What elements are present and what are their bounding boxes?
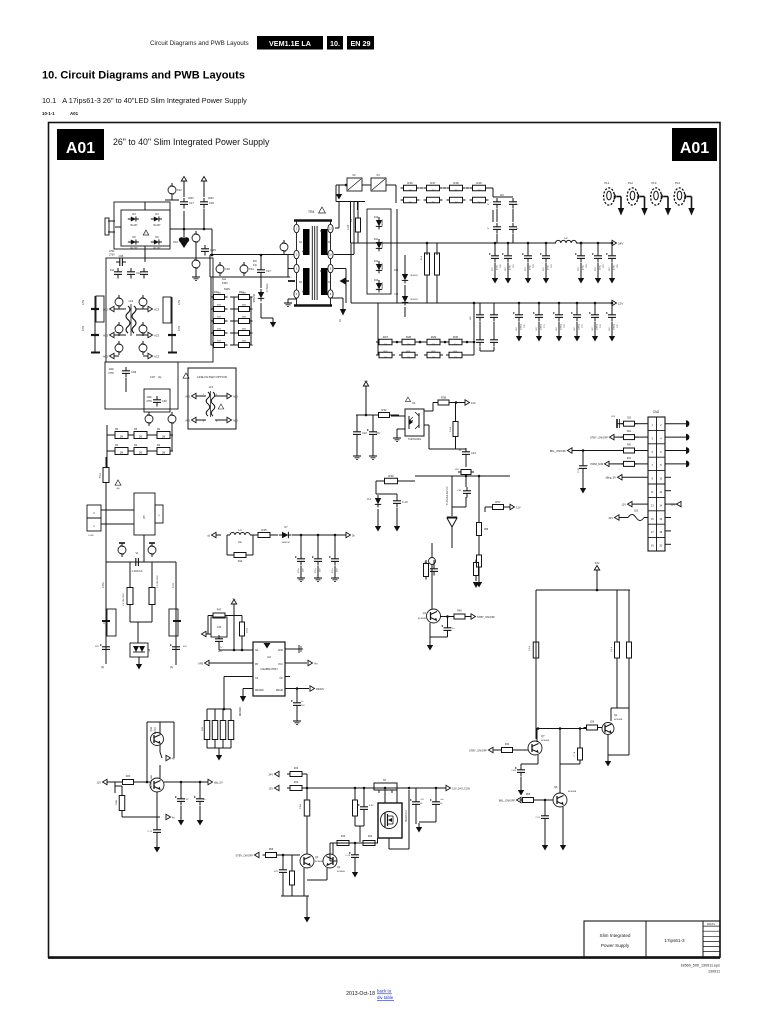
wire 24V cap 4 gnd [580, 263, 582, 276]
wire rail HV top [210, 254, 293, 256]
wire chain2 right [462, 341, 474, 343]
svg-text:A01: A01 [680, 140, 709, 157]
wire C64 gnd [180, 806, 182, 818]
svg-text:470u: 470u [315, 569, 317, 573]
svg-text:P10: P10 [173, 240, 178, 244]
resistor R38 [438, 400, 449, 405]
svg-text:DRAIN: DRAIN [276, 689, 283, 692]
wire C23 top [372, 415, 374, 428]
wire 24V rail [351, 242, 556, 244]
svg-text:R2: R2 [157, 428, 161, 431]
svg-text:470u: 470u [298, 569, 300, 573]
svg-text:C30: C30 [225, 267, 230, 271]
junction 5V cap 0 [300, 534, 303, 537]
wire Q1 c up b [431, 565, 433, 610]
svg-text:C63: C63 [551, 263, 553, 268]
line filter option box [188, 368, 236, 429]
svg-text:3.1 5W 220V: 3.1 5W 220V [157, 575, 159, 588]
connector CN2 outline [648, 417, 665, 551]
svg-text:back to: back to [377, 989, 392, 994]
wire Q6 e down [562, 807, 564, 843]
svg-text:D-0: D-0 [367, 499, 371, 501]
junction L2 out [580, 242, 583, 245]
wire U2 CS [224, 676, 253, 678]
wire N7 bottom [389, 848, 409, 850]
svg-text:20: 20 [659, 544, 662, 548]
resistor R58 [477, 523, 482, 536]
wire P15 down [195, 271, 197, 274]
wire pin4 gnd bend [288, 298, 297, 300]
wire grid row 2 [230, 320, 238, 322]
inductor L2 [556, 240, 577, 243]
arrow PWM cn2 [605, 461, 610, 466]
svg-text:AC3: AC3 [154, 307, 160, 311]
svg-text:24V: 24V [269, 773, 274, 776]
svg-text:35V: 35V [505, 267, 507, 271]
svg-text:17ips61-3: 17ips61-3 [664, 938, 685, 943]
wire NA feed [219, 649, 253, 651]
capacitor C06 275V [116, 261, 120, 263]
wire q5 e bend [521, 763, 538, 765]
svg-text:R49: R49 [476, 181, 482, 185]
wire tl mid [451, 527, 453, 548]
wire Q10 out rail [164, 781, 208, 783]
svg-text:BC846B: BC846B [337, 871, 345, 873]
left rail bottom bar [91, 352, 100, 354]
AC input terminal [108, 220, 115, 222]
wire U2 VCC [285, 662, 307, 664]
wire fb left [376, 480, 384, 482]
svg-text:C03: C03 [611, 416, 616, 418]
svg-text:RL207: RL207 [153, 224, 161, 227]
wire loop bottom rail [536, 728, 587, 730]
svg-text:PA4: PA4 [627, 430, 632, 433]
svg-text:12: 12 [659, 490, 662, 494]
node P15 [192, 260, 200, 268]
connector CN2 row 8 line [648, 510, 665, 512]
capacitor C60 35V [494, 252, 496, 256]
jumper N7 [374, 783, 397, 790]
resistor R44 [234, 553, 246, 558]
wire D9 top [357, 202, 359, 219]
resistor R57 [493, 505, 504, 510]
wire bank 1 top [214, 709, 216, 720]
svg-text:19: 19 [651, 544, 654, 548]
wire R44 right [249, 554, 253, 556]
svg-text:Vin: Vin [314, 662, 318, 665]
wire PL4 bend [687, 196, 692, 198]
svg-text:1000u: 1000u [521, 323, 523, 330]
svg-text:BKL_ON/OFF: BKL_ON/OFF [550, 449, 567, 453]
svg-text:4.8V: 4.8V [369, 805, 374, 807]
svg-text:2kV: 2kV [253, 260, 258, 263]
svg-text:1n: 1n [516, 204, 519, 206]
svg-text:C-05: C-05 [578, 467, 580, 473]
wire U2 GND [285, 648, 298, 650]
connector CN2 row 6 line [648, 483, 665, 485]
junction 12V cap 0 [518, 302, 521, 305]
svg-text:2M: 2M [139, 435, 142, 438]
svg-text:C-1b: C-1b [345, 855, 350, 857]
wire C6C top [435, 788, 437, 798]
svg-text:400n: 400n [147, 396, 153, 399]
arrow AC1 [110, 306, 115, 311]
transistor Q3 BC846B b [300, 854, 314, 868]
svg-text:4.9V: 4.9V [274, 871, 279, 873]
wire R38 jct arrow [456, 402, 465, 404]
ground C53q [544, 841, 546, 845]
svg-text:P1-b: P1-b [611, 646, 613, 651]
wire loop right join [611, 707, 629, 709]
svg-text:TL431SJLAM FD: TL431SJLAM FD [446, 486, 449, 505]
resistor R53 [435, 253, 440, 275]
wire D22 down [404, 307, 406, 317]
wire R67v top [291, 855, 293, 871]
svg-text:47p: 47p [253, 264, 258, 267]
svg-text:R44: R44 [294, 782, 299, 784]
resistor R50v [424, 564, 429, 577]
svg-text:FB: FB [255, 664, 258, 666]
junction q10 a [180, 781, 183, 784]
wire N7 source [388, 838, 390, 849]
winding polarity dot b [302, 290, 304, 292]
ground Q2 [607, 757, 609, 761]
svg-text:(A): (A) [101, 666, 104, 669]
svg-text:(A): (A) [117, 487, 120, 490]
svg-text:D10: D10 [374, 217, 379, 219]
transformer top bar [294, 219, 332, 221]
wire D21 up [404, 255, 406, 271]
capacitor C60b [199, 795, 201, 799]
wire fb pair topb [396, 494, 398, 497]
terminal right 2 [686, 447, 689, 454]
svg-text:D3: D3 [155, 212, 159, 216]
transformer pin 4 left [294, 290, 299, 298]
warning triangle bridge [143, 230, 149, 235]
svg-text:7: 7 [651, 463, 653, 467]
arrow STBY q1 [471, 614, 476, 619]
resistor R25 [615, 642, 620, 658]
wire R64 top [306, 788, 308, 800]
wire R67v down [291, 885, 293, 896]
arrow AC3 a [148, 306, 153, 311]
svg-text:W-8: W-8 [421, 255, 423, 260]
svg-text:BC846B: BC846B [418, 618, 427, 620]
wire 24V cap 3 drop [545, 243, 547, 252]
wire power drop [137, 622, 139, 643]
transistor Q1 BC846B [427, 609, 441, 623]
junction 5V cap 1 [317, 534, 320, 537]
capacitor C63 35V [545, 252, 547, 256]
wire q4 e down [326, 868, 328, 880]
wire C43c bot [218, 645, 220, 650]
resistor R210 a [449, 339, 462, 345]
cap bar C40 [102, 620, 110, 622]
svg-text:275V: 275V [146, 400, 152, 403]
ground PL2 [641, 208, 647, 216]
svg-text:R15: R15 [202, 726, 204, 731]
wire R44 left [227, 554, 231, 556]
wire PL4 drop [691, 197, 693, 209]
resistor R60 sense [204, 721, 210, 740]
svg-text:RL207: RL207 [130, 247, 138, 250]
svg-text:C61: C61 [513, 263, 515, 268]
capacitor C82 [479, 336, 481, 340]
svg-text:C34: C34 [457, 490, 462, 492]
resistor R46 a [404, 185, 417, 191]
wire C34 bot [465, 497, 467, 507]
svg-text:sBrig_5V: sBrig_5V [605, 476, 616, 480]
op-amp U1 optocoupler [405, 409, 424, 436]
wire 2M join c [128, 450, 134, 452]
ground 5V cap 2 [334, 575, 336, 578]
transformer pin 10 right [328, 250, 333, 258]
wire arrow stub [206, 633, 211, 635]
svg-text:Q6: Q6 [554, 786, 558, 789]
wire 24V cap 2 gnd [527, 263, 529, 276]
svg-text:R58: R58 [484, 529, 489, 531]
snubber box U2 [211, 617, 227, 637]
resistor R62 sense [220, 721, 226, 740]
resistor R42v [240, 622, 245, 636]
label warning small [183, 373, 189, 378]
svg-text:R57: R57 [495, 500, 501, 504]
ground C19 [396, 522, 398, 526]
svg-text:35V: 35V [609, 267, 611, 271]
svg-text:73DB: 73DB [116, 799, 118, 805]
svg-text:TH-2: TH-2 [99, 472, 102, 478]
capacitor C19 [396, 497, 398, 501]
wire 12V cap 4 gnd [594, 322, 596, 334]
title block divider 2 [702, 921, 704, 957]
capacitor C53 [496, 223, 498, 227]
svg-text:1000u: 1000u [614, 323, 616, 330]
svg-text:SB840: SB840 [382, 241, 384, 248]
svg-text:1b: 1b [420, 803, 423, 805]
wire 12V cap 3 gnd [576, 322, 578, 334]
junction gate a [354, 842, 357, 845]
svg-text:C-H4: C-H4 [450, 426, 452, 432]
capacitor plate right a [168, 334, 176, 336]
svg-text:R38: R38 [441, 396, 447, 400]
wire CH1 bot [363, 813, 365, 826]
svg-text:4b: 4b [172, 817, 175, 819]
svg-text:A01/Fv: A01/Fv [707, 922, 716, 926]
svg-text:C71: C71 [544, 323, 546, 328]
capacitor C73 16V [576, 311, 578, 315]
svg-text:L2: L2 [564, 236, 568, 240]
wire U2 FB [209, 662, 253, 664]
svg-text:470u: 470u [530, 264, 532, 270]
resistor R63 [353, 800, 358, 816]
op-amp U2 ICE3BR1765J [253, 642, 285, 696]
svg-text:N2: N2 [328, 242, 332, 244]
node P14 [240, 265, 248, 273]
wire 12V cap 3 drop [576, 303, 578, 311]
svg-text:35V: 35V [595, 267, 597, 271]
wire lf d [215, 419, 227, 421]
capacitor C65 35V [597, 252, 599, 256]
svg-text:R65: R65 [269, 849, 274, 851]
svg-text:AC3: AC3 [233, 395, 238, 398]
svg-text:A01: A01 [66, 140, 95, 157]
svg-text:275V: 275V [108, 372, 114, 375]
wire R53 top [436, 243, 438, 255]
resistor R34 left [214, 343, 225, 348]
svg-text:a: a [587, 465, 589, 467]
node bead Q1 [429, 558, 436, 565]
wire choke right top [136, 308, 148, 310]
wire 12V to R20 [107, 781, 121, 783]
resistor R51v [474, 563, 479, 576]
svg-text:D12: D12 [374, 261, 379, 263]
capacitor C42 [105, 643, 107, 647]
svg-text:STBY_ON/OFF: STBY_ON/OFF [477, 615, 495, 619]
wire 24V cap 0 drop [494, 243, 496, 252]
svg-text:R07: R07 [383, 335, 389, 339]
svg-text:R3: R3 [157, 444, 161, 447]
svg-text:Q1: Q1 [423, 612, 427, 615]
capacitor C12b [156, 826, 158, 830]
wire chain2 a [392, 341, 402, 343]
svg-text:C-HA: C-HA [102, 582, 105, 588]
connector PL1 [604, 188, 615, 205]
wire N7 drain b [396, 790, 398, 803]
resistor R26 [587, 725, 598, 730]
wire chain join b [443, 187, 446, 189]
wire grid right rail [250, 297, 252, 345]
svg-text:8: 8 [660, 463, 662, 467]
svg-text:TCET1103G: TCET1103G [408, 438, 421, 441]
junction R38 [455, 401, 458, 404]
wire R63 bot [354, 816, 356, 826]
wire q1 top b [433, 560, 435, 565]
wire stack bus drop [396, 209, 398, 303]
capacitor CX1 box [96, 296, 104, 322]
svg-text:AC3: AC3 [154, 333, 160, 337]
wire Q1 c up [431, 543, 433, 558]
header box EN 29 [347, 36, 374, 50]
jumper X2 box [347, 178, 362, 191]
svg-text:3: 3 [651, 436, 653, 440]
resistor R4 [115, 448, 128, 455]
polarity arrow right [340, 278, 346, 285]
diode D12 SB840 [376, 264, 382, 270]
arrow 24V in b [275, 771, 280, 776]
wire C34 top [465, 476, 467, 487]
wire 5V cap 2 gnd [334, 566, 336, 576]
junction con b [354, 787, 357, 790]
svg-text:16V: 16V [320, 568, 322, 572]
ground C6B [418, 823, 420, 827]
capacitor C72 16V [558, 311, 560, 315]
svg-text:RL207: RL207 [130, 224, 138, 227]
wire U1 pin2 drop [396, 429, 398, 436]
svg-text:DRAWN: DRAWN [239, 707, 242, 716]
junction tl a [465, 475, 468, 478]
connector CN2 row 7 line [648, 496, 665, 498]
ground D6 [272, 318, 274, 322]
svg-text:12V: 12V [516, 505, 521, 509]
ground sense bank [218, 751, 220, 755]
resistor R4J [624, 435, 635, 440]
wire U1 pin1b [391, 415, 399, 417]
svg-text:STBY_ON/OFF: STBY_ON/OFF [236, 854, 254, 857]
svg-text:AC3: AC3 [103, 333, 109, 337]
transistor U3 TL431 [447, 518, 457, 527]
pin arrow r51 [473, 582, 479, 588]
svg-text:TK15A60W: TK15A60W [404, 810, 407, 823]
svg-text:C43: C43 [217, 626, 222, 629]
resistor R28 a [402, 339, 415, 345]
wire R51p top [129, 562, 131, 588]
capacitor C81 [493, 311, 495, 315]
wire fb drop left [375, 481, 377, 494]
wire grid left rail [210, 297, 212, 345]
wire row3 long [572, 450, 623, 452]
title block divider 1 [645, 921, 647, 957]
wire Q1 e bus [430, 636, 448, 638]
wire loop mid branch [579, 729, 581, 749]
svg-text:16: 16 [659, 517, 662, 521]
wire R52p top [151, 562, 153, 588]
wire C22 gnd [356, 438, 358, 453]
capacitor C22 [356, 428, 358, 432]
resistor R30 left [214, 295, 225, 300]
svg-text:N4: N4 [328, 282, 332, 284]
connector PL2 [627, 188, 638, 205]
wire row4 b [609, 463, 623, 465]
capacitor C53q [544, 812, 546, 816]
capacitor C6B [415, 798, 417, 802]
wire aux rail [356, 414, 376, 416]
jumper X4 box [371, 178, 386, 191]
wire bridge top [144, 202, 146, 210]
capacitor C43b [175, 643, 177, 647]
wire D9 bottom [357, 232, 359, 243]
wire R25 down [616, 658, 618, 708]
capacitor C03 pol [616, 419, 618, 428]
wire C05 gnd [582, 472, 584, 486]
ground C05 [582, 484, 584, 488]
wire R57 left [485, 506, 492, 508]
resistor R42b [363, 841, 375, 846]
wire pin8 down right [331, 297, 344, 299]
svg-text:EN 29: EN 29 [351, 39, 371, 48]
junction chain2 0 [396, 341, 399, 344]
wire 5V cap 2 drop [334, 535, 336, 555]
svg-text:PL3: PL3 [652, 181, 657, 185]
wire CH1 top [363, 788, 365, 803]
svg-text:ICE3BR1765J: ICE3BR1765J [260, 667, 278, 671]
arrow 4lon [166, 755, 171, 760]
arrow VFB [205, 660, 210, 665]
node P1 [115, 344, 123, 352]
svg-text:R5: R5 [134, 428, 138, 431]
wire U1 pin2 gnd [397, 428, 405, 430]
ground 24V cap 4 [580, 274, 582, 278]
junction bridge out a [183, 228, 186, 231]
wire bank 1 bot [214, 740, 216, 748]
wire row4 [634, 463, 648, 465]
capacitor CH1 [363, 803, 365, 807]
wire R42v top [241, 616, 243, 623]
node P2 [139, 344, 147, 352]
ground 24V cap 3 [545, 274, 547, 278]
resistor R5 [134, 432, 147, 439]
resistor R44c [290, 786, 302, 791]
sheet label A01 left [57, 129, 104, 160]
